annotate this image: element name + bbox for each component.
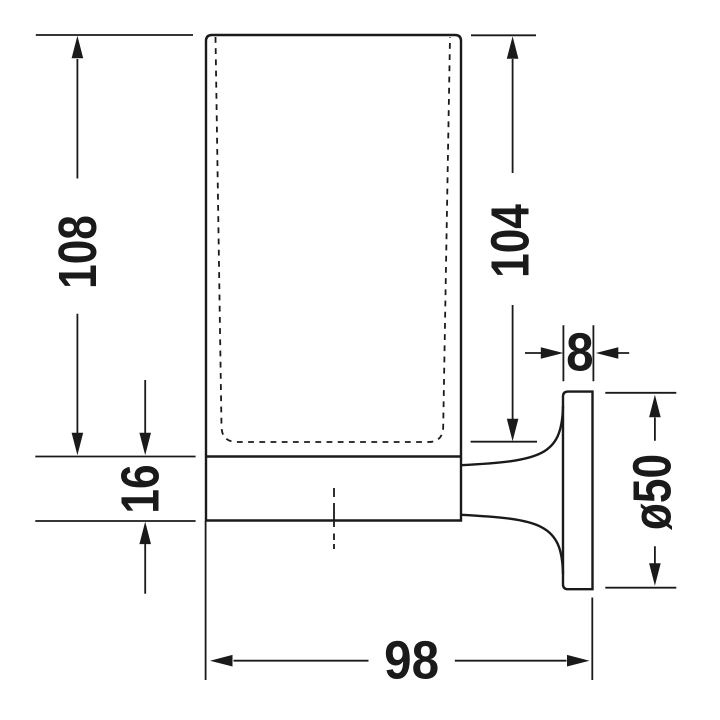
svg-text:16: 16 — [110, 464, 170, 513]
svg-text:98: 98 — [384, 630, 439, 691]
svg-text:8: 8 — [566, 322, 593, 383]
svg-text:ø50: ø50 — [623, 454, 683, 530]
svg-text:108: 108 — [48, 215, 108, 289]
svg-text:104: 104 — [481, 204, 541, 278]
